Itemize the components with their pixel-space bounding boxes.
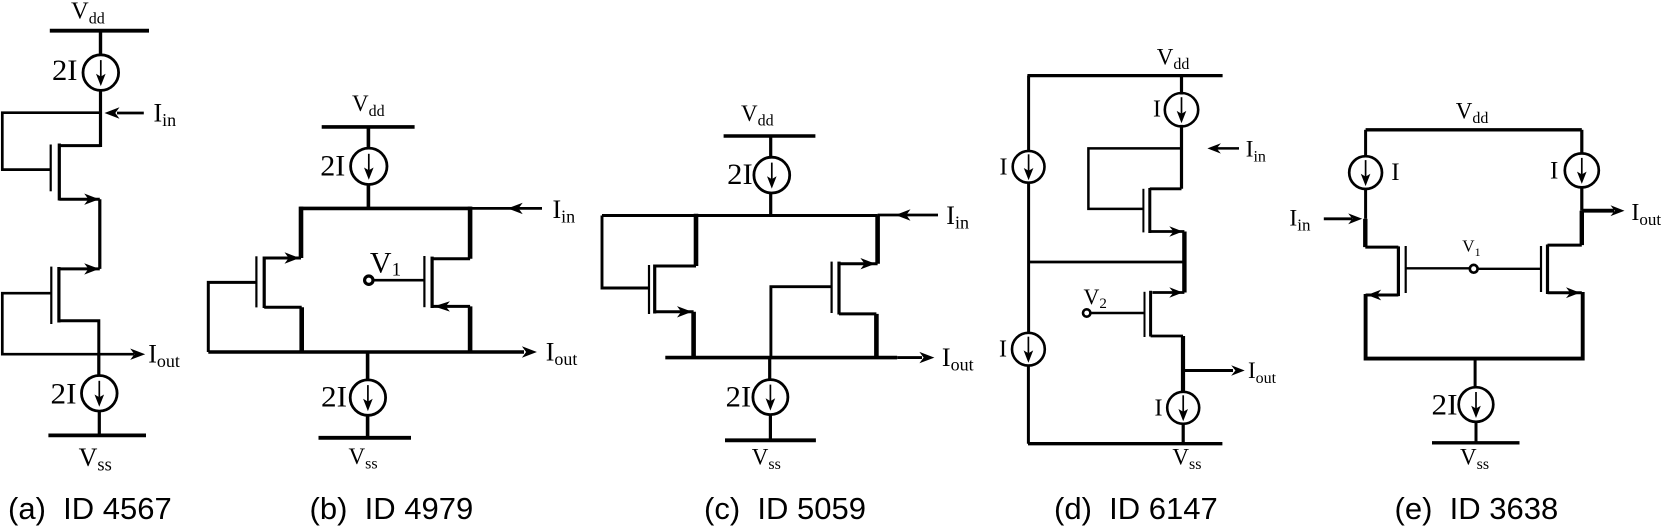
transistor M1 (a) source wire with arrow — [59, 198, 100, 201]
svg-text:(a) ID 4567: (a) ID 4567 — [8, 491, 172, 526]
wire current source to Vss rail (e) — [1475, 422, 1478, 443]
right wire Vdd to current source (e) — [1580, 130, 1583, 154]
transistor M1 (b) gate bar — [255, 256, 257, 307]
Iout arrow (b) — [502, 350, 524, 354]
current source I1 left-upper (d) — [1013, 151, 1045, 183]
svg-text:(c) ID 5059: (c) ID 5059 — [704, 491, 866, 526]
left branch wire Vdd to current source I1 (d) — [1027, 76, 1030, 152]
transistor M1 (e) gate bar — [1405, 246, 1407, 293]
circuit (a) Vss rail — [48, 433, 146, 437]
svg-text:I: I — [1391, 159, 1399, 186]
wire M2 source to Iout node and current source (d) — [1181, 336, 1185, 391]
terminal V2 (d) — [1083, 309, 1090, 316]
transistor M2 (d) source wire (d) — [1151, 335, 1183, 338]
transistor M2 (c) drain vertical to bottom bus — [874, 314, 879, 358]
transistor M2 (b) drain wire — [432, 257, 470, 260]
transistor M2 (c) gate bar — [830, 262, 832, 313]
transistor M1 (c) drain wire — [655, 265, 696, 268]
svg-text:2I: 2I — [52, 54, 78, 87]
Iin arrow (c) — [878, 214, 938, 217]
transistor M2 (d) drain wire with arrow — [1152, 291, 1184, 294]
svg-text:I: I — [1155, 396, 1163, 422]
transistor M1 (b) source vertical to bottom bus — [299, 307, 304, 352]
terminal V1 (e) — [1470, 265, 1478, 273]
svg-text:2I: 2I — [727, 158, 753, 191]
terminal V1 (b) — [365, 276, 373, 284]
transistor M2 (a) drain wire — [59, 321, 99, 354]
circuit (d) Vdd rail — [1027, 74, 1222, 77]
transistor M2 (c) bottom wire — [839, 312, 876, 315]
current source I4 right-bottom (d) — [1167, 392, 1199, 424]
transistor M2 (a) gate bar — [50, 267, 52, 324]
transistor M1 (c) source wire with arrow — [655, 310, 694, 313]
wire Vdd rail to current source I3 (d) — [1180, 76, 1183, 95]
transistor M1 (a) drain wire — [59, 144, 100, 147]
transistor M2 (e) gate bar — [1540, 246, 1542, 292]
bottom bus / node Iout (c) — [665, 356, 897, 360]
transistor M2 (c) gate loop to bottom bus — [771, 287, 832, 358]
transistor M2 (d) gate bar — [1144, 292, 1146, 337]
Iout arrow (a) — [99, 353, 134, 356]
circuit (a) Vdd rail — [50, 29, 149, 33]
left branch wire to Vss rail (d) — [1027, 365, 1030, 444]
svg-text:I: I — [1153, 97, 1161, 123]
mid bus wire to left branch (d) — [1029, 261, 1185, 264]
transistor M1 (c) source vertical to bottom bus — [691, 312, 696, 358]
transistor M1 (e) source wire with arrow — [1366, 294, 1399, 297]
transistor M1 (e) gate wire to V1 — [1406, 267, 1470, 269]
transistor M1 (d) channel bar — [1148, 188, 1151, 233]
transistor M2 (b) source wire with arrow — [432, 305, 470, 308]
transistor M1 (e) channel bar — [1397, 246, 1400, 296]
current source 2I top (c) — [754, 157, 790, 193]
transistor M2 (b) drain vertical from top bus — [468, 207, 473, 259]
transistor M2 (b) source vertical to bottom bus — [468, 306, 473, 352]
wire current source I3 to M1 drain (d) — [1180, 125, 1183, 189]
wire current source to top bus (c) — [769, 193, 772, 216]
current source I3 right-top (d) — [1165, 93, 1198, 126]
current source 2I tail (e) — [1459, 387, 1494, 422]
transistor M2 (b) channel bar — [431, 257, 434, 308]
wire Vdd rail to current source (c) — [769, 136, 772, 159]
transistor M2 (a) source wire with arrow — [59, 267, 100, 270]
transistor M2 (b) gate bar — [423, 256, 425, 307]
circuit (b) Vss rail — [319, 436, 412, 440]
current source 2I bottom (a) — [82, 376, 118, 412]
transistor M1 (d) gate bar — [1142, 189, 1144, 233]
transistor M1 (e) drain wire — [1365, 246, 1398, 249]
transistor M1 (a) channel bar — [58, 144, 61, 201]
wire current source I4 to Vss rail (d) — [1182, 423, 1185, 444]
tail bus connecting sources (e) — [1366, 292, 1583, 359]
svg-text:2I: 2I — [321, 380, 347, 413]
wire bottom bus to current source (c) — [768, 358, 771, 381]
wire M1 source through mid node to M2 drain (d) — [1182, 232, 1186, 293]
svg-text:2I: 2I — [726, 380, 752, 413]
current source I2 left-lower (d) — [1012, 333, 1045, 366]
Iout arrow (e) — [1582, 209, 1614, 213]
svg-text:I: I — [999, 337, 1007, 363]
circuit (c) Vss rail — [725, 438, 816, 442]
transistor M1 (c) gate loop from top bus — [602, 216, 649, 289]
transistor M2 (e) drain wire — [1548, 244, 1582, 247]
transistor M2 (e) channel bar — [1546, 245, 1549, 295]
wire Iout node to current source (a) — [97, 354, 100, 376]
current source I right (e) — [1565, 153, 1599, 187]
left branch wire between current sources (d) — [1027, 182, 1030, 334]
Iin arrow (d) — [1211, 147, 1239, 150]
transistor M1 (b) channel bar — [263, 257, 266, 309]
circuit (c) Vdd rail — [724, 134, 816, 138]
Iout arrow (c) — [897, 356, 922, 359]
wire current source to Iin node (e) — [1364, 188, 1367, 219]
transistor M2 (a) channel bar — [57, 267, 60, 323]
circuit (e) Vss rail — [1432, 441, 1520, 444]
top bus / node Iin (c) — [602, 214, 878, 217]
wire Iout node to M2 drain (e) — [1580, 211, 1584, 245]
wire current source to Vss rail (a) — [98, 411, 101, 436]
current source I left (e) — [1349, 156, 1382, 189]
transistor M1 (d) source wire with arrow — [1150, 230, 1185, 233]
svg-text:I: I — [1550, 158, 1558, 185]
bottom bus / node Iout (b) — [208, 350, 502, 354]
svg-text:2I: 2I — [51, 378, 77, 411]
transistor M2 (c) top wire with arrow — [839, 262, 878, 265]
svg-text:2I: 2I — [1432, 389, 1458, 422]
wire current source to Vss rail (b) — [366, 415, 370, 438]
wire Iin node to M1 drain (e) — [1363, 219, 1367, 247]
transistor M1 (d) drain wire — [1150, 187, 1182, 190]
Iin arrow (a) — [117, 112, 144, 115]
wire tail bus to current source 2I (e) — [1474, 359, 1477, 388]
transistor M2 (c) channel bar — [837, 262, 840, 315]
transistor M1 (b) top wire with arrow — [264, 257, 301, 260]
wire bottom bus to current source (b) — [366, 352, 370, 381]
wire V2 to gate of M2 (d) — [1090, 312, 1144, 315]
Iout arrow (d) — [1183, 369, 1233, 372]
transistor M1 (b) drain vertical from top bus — [299, 207, 304, 258]
svg-text:2I: 2I — [320, 150, 345, 183]
transistor M2 (e) source wire with arrow — [1548, 291, 1582, 294]
circuit (b) Vdd rail — [322, 125, 415, 129]
wire Vdd rail to current source (b) — [367, 127, 371, 149]
circuit (d) Vss rail — [1028, 442, 1222, 445]
transistor M2 (d) channel bar — [1149, 291, 1152, 337]
current source 2I top (a) — [83, 55, 119, 91]
transistor M1 (b) gate loop to bottom bus — [208, 282, 256, 352]
current source 2I bottom (c) — [753, 380, 788, 415]
circuit (e) Vdd rail wire — [1366, 128, 1582, 131]
transistor M2 (c) source vertical from top bus — [875, 216, 880, 264]
transistor M1 (d) gate loop from Iin node — [1088, 148, 1181, 209]
Iin arrow (e) — [1324, 217, 1352, 220]
wire V1 to gate of M2 (b) — [373, 279, 424, 282]
node Iin (a) with gate loop of M1 — [2, 113, 100, 170]
current source 2I bottom (b) — [350, 380, 385, 415]
wire M1 source to M2 source (a) — [98, 199, 101, 269]
wire V1 to gate of M2 (e) — [1478, 268, 1541, 270]
wire Vdd rail to current source (a) — [99, 31, 102, 56]
transistor M1 (c) channel bar — [653, 265, 656, 314]
current source 2I top (b) — [351, 148, 387, 184]
left wire Vdd to current source (e) — [1364, 130, 1367, 157]
transistor M1 (b) bottom wire — [264, 306, 302, 309]
top bus / node Iin (b) — [300, 207, 472, 211]
wire current source to top bus (b) — [367, 184, 371, 208]
svg-text:I: I — [1000, 155, 1008, 181]
Iin arrow (b) — [472, 207, 543, 210]
svg-text:(e) ID 3638: (e) ID 3638 — [1395, 491, 1559, 526]
svg-text:(b) ID 4979: (b) ID 4979 — [310, 491, 474, 526]
wire current source to Iout node (e) — [1580, 187, 1583, 210]
svg-text:(d) ID 6147: (d) ID 6147 — [1054, 491, 1218, 526]
transistor M1 (c) gate bar — [648, 265, 650, 314]
wire current source to Vss rail (c) — [769, 414, 772, 440]
transistor M1 (a) gate bar — [50, 145, 52, 192]
transistor M2 (a) gate loop to Iout node — [2, 293, 99, 354]
transistor M1 (c) drain vertical from top bus — [694, 214, 699, 266]
wire current source to Iin node (a) — [99, 90, 102, 148]
